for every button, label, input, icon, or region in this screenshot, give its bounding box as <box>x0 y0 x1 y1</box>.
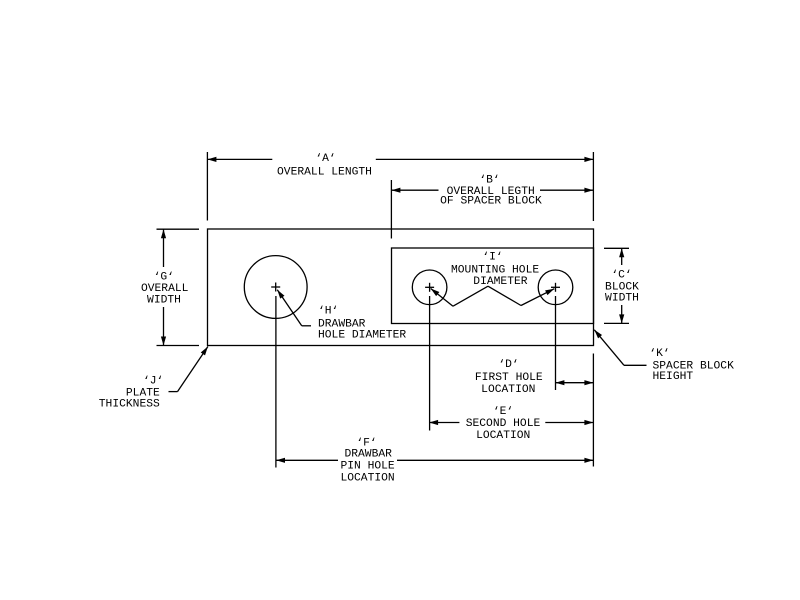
mounting hole 2 center line <box>555 296 557 390</box>
leader I left arrow <box>431 289 440 297</box>
dimension D line <box>555 382 593 384</box>
mounting hole 1 center line <box>429 296 431 431</box>
svg-text:‘I‘: ‘I‘ <box>482 252 502 264</box>
dimension E arrow right <box>584 420 593 425</box>
dimension E label <box>466 406 541 442</box>
drawbar hole center mark <box>271 283 280 292</box>
dimension D arrow left <box>555 380 564 385</box>
leader I right arrow <box>545 289 554 295</box>
dimension A/B/D/E/F extension line right lower <box>592 354 594 467</box>
leader J line <box>169 347 208 392</box>
label I <box>451 252 539 289</box>
dimension C label <box>605 270 639 305</box>
svg-text:LOCATION: LOCATION <box>476 430 530 442</box>
dimension A extension line left <box>206 152 208 221</box>
dimension C arrow bottom <box>619 314 624 323</box>
dimension A label <box>277 153 372 178</box>
leader I right line <box>488 286 554 305</box>
dimension G line <box>163 229 165 345</box>
leader H line <box>277 290 311 326</box>
svg-text:LOCATION: LOCATION <box>340 473 394 485</box>
dimension B arrow right <box>584 188 593 193</box>
dimension C line <box>621 248 623 323</box>
leader I left line <box>431 286 488 306</box>
svg-text:‘K‘: ‘K‘ <box>649 348 669 360</box>
label H <box>318 306 406 342</box>
svg-text:HEIGHT: HEIGHT <box>653 371 694 383</box>
leader J arrow <box>201 347 208 356</box>
svg-text:‘C‘: ‘C‘ <box>611 270 631 282</box>
dimension G extension tick bottom <box>157 345 200 347</box>
mounting hole 2 (right) <box>538 270 573 305</box>
svg-text:DRAWBAR: DRAWBAR <box>344 448 392 460</box>
svg-text:DIAMETER: DIAMETER <box>473 276 527 288</box>
svg-text:SECOND HOLE: SECOND HOLE <box>466 418 541 430</box>
dimension C extension tick bottom <box>604 322 629 324</box>
drawbar hole <box>244 256 307 319</box>
dimension B extension line left <box>390 180 392 239</box>
svg-text:‘E‘: ‘E‘ <box>493 406 513 418</box>
dimension F label <box>340 438 394 485</box>
leader K line <box>594 330 646 366</box>
svg-text:‘A‘: ‘A‘ <box>315 153 335 165</box>
svg-text:OVERALL LENGTH: OVERALL LENGTH <box>277 166 372 178</box>
svg-text:WIDTH: WIDTH <box>605 293 639 305</box>
dimension G label <box>141 271 189 306</box>
dimension G arrow bottom <box>161 337 166 346</box>
mounting hole 2 center mark <box>551 283 560 292</box>
leader K arrow <box>594 330 602 339</box>
spacer block outline <box>392 248 594 324</box>
svg-text:‘D‘: ‘D‘ <box>498 359 518 371</box>
svg-text:PIN HOLE: PIN HOLE <box>340 461 394 473</box>
svg-text:WIDTH: WIDTH <box>147 295 181 307</box>
svg-text:THICKNESS: THICKNESS <box>99 398 160 410</box>
svg-text:‘J‘: ‘J‘ <box>143 375 163 387</box>
dimension E line <box>429 422 593 424</box>
dimension C arrow top <box>619 248 624 257</box>
svg-text:DRAWBAR: DRAWBAR <box>318 318 366 330</box>
dimension D label <box>475 359 543 396</box>
svg-text:‘H‘: ‘H‘ <box>318 306 338 318</box>
dimension B line <box>391 189 593 191</box>
svg-text:‘B‘: ‘B‘ <box>479 175 499 187</box>
svg-text:‘G‘: ‘G‘ <box>154 271 174 283</box>
dimension E arrow left <box>429 420 438 425</box>
dimension B label <box>440 175 542 208</box>
dimension B arrow left <box>391 188 400 193</box>
dimension C extension tick top <box>604 247 629 249</box>
dimension A arrow right <box>584 157 593 162</box>
dimension A/B extension line right upper <box>592 152 594 221</box>
drawbar hole center line <box>275 296 277 468</box>
dimension F line <box>276 459 593 461</box>
label J <box>99 375 164 410</box>
mounting hole 1 center mark <box>425 283 434 292</box>
svg-text:LOCATION: LOCATION <box>481 384 535 396</box>
svg-text:HOLE DIAMETER: HOLE DIAMETER <box>318 330 406 342</box>
svg-text:FIRST HOLE: FIRST HOLE <box>475 372 543 384</box>
svg-text:MOUNTING HOLE: MOUNTING HOLE <box>451 265 539 277</box>
dimension A arrow left <box>207 157 216 162</box>
dimension A line <box>207 158 593 160</box>
dimension F arrow right <box>584 458 593 463</box>
dimension D arrow right <box>584 380 593 385</box>
svg-text:OVERALL: OVERALL <box>141 283 189 295</box>
mounting hole 1 (left) <box>412 270 447 305</box>
svg-text:OF SPACER BLOCK: OF SPACER BLOCK <box>440 196 542 208</box>
plate outline <box>208 229 594 346</box>
dimension G extension tick top <box>157 228 200 230</box>
dimension G arrow top <box>161 229 166 238</box>
leader H arrow <box>277 290 284 299</box>
dimension F arrow left <box>276 458 285 463</box>
label K <box>649 348 734 383</box>
